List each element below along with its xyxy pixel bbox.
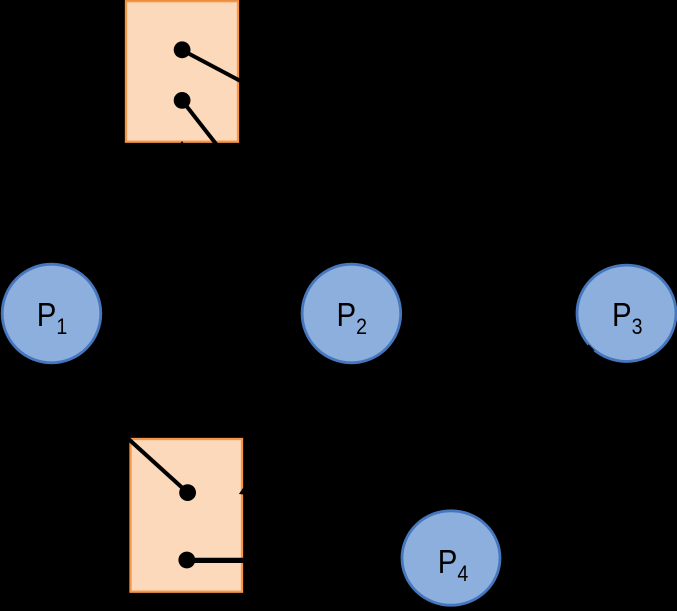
place P2 [302,264,401,363]
node dot B (lower dot in T1) [174,92,191,109]
place P4 [402,511,500,605]
place P3 [577,265,676,361]
place P1 [2,264,101,363]
arrowhead tip touching bottom border of T1 [179,141,186,146]
node dot D (lower dot in T2) [178,552,195,569]
arrowhead fragment on lower-left edge of P3 [585,344,595,351]
transition T2 (bottom rectangle) [131,439,243,592]
wire from dot D through right edge of T2 [187,558,252,563]
node dot A (top dot in T1) [174,41,191,58]
wire from top-left corner of T2 to dot C [123,434,188,493]
wire from dot B through bottom edge of T1 [182,100,220,149]
transition T1 (top rectangle) [126,1,238,142]
node dot C (upper dot in T2) [179,484,196,501]
wire from dot A to right edge of T1 [182,50,248,85]
arrowhead entering right edge of T2 [239,486,245,495]
